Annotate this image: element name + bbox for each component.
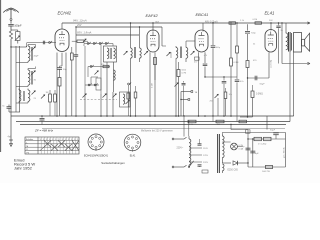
grid capacitor 4700pF xyxy=(247,24,249,30)
speaker field line xyxy=(282,63,310,65)
band switch table xyxy=(25,137,79,154)
mains terminal b xyxy=(174,166,184,168)
wire xyxy=(87,67,89,78)
feed from bus to psu xyxy=(230,125,232,130)
resistor 50k xyxy=(134,92,137,98)
left border edge xyxy=(0,0,2,152)
wire TA pickup xyxy=(181,91,191,93)
wire ECH42 pin1 xyxy=(56,53,58,117)
svg-text:1M: 1M xyxy=(46,92,49,94)
wire xyxy=(83,44,85,47)
IFT3 trimmer right xyxy=(191,51,195,55)
svg-text:M: M xyxy=(27,146,29,148)
tube EAF42 xyxy=(147,30,159,52)
wire TA vertical xyxy=(180,92,182,117)
IFT1 coil a xyxy=(107,48,109,59)
wire cathode EL41 xyxy=(268,53,270,79)
rail A arrow xyxy=(307,22,310,24)
svg-text:30: 30 xyxy=(34,80,37,82)
svg-text:L: L xyxy=(27,142,29,144)
svg-text:700p: 700p xyxy=(251,33,256,35)
svg-text:85V, 1.8mA: 85V, 1.8mA xyxy=(77,31,92,35)
wire OT secondary down xyxy=(289,52,291,122)
wire xyxy=(26,46,28,47)
resistor 0.1M grid leak xyxy=(59,69,61,77)
wire screen ECH42 xyxy=(75,27,77,52)
bus line 1 ground xyxy=(11,115,294,117)
coil L3 MW antenna xyxy=(27,69,29,71)
svg-text:50V: 50V xyxy=(269,20,273,22)
svg-text:0,1M: 0,1M xyxy=(152,83,154,88)
primary tap 125V xyxy=(189,154,202,156)
switch contacts row 2 xyxy=(88,84,90,86)
svg-text:47n: 47n xyxy=(182,84,186,86)
fuse resistor bottom xyxy=(266,165,273,168)
svg-text:Jahr 1952: Jahr 1952 xyxy=(14,166,33,171)
antenna xyxy=(10,8,12,18)
capacitor 50pF xyxy=(57,67,62,69)
coil bank rail 2 xyxy=(19,46,21,112)
svg-text:E250 C85: E250 C85 xyxy=(228,170,239,172)
wire xyxy=(10,26,12,30)
resistor 0.3M agc xyxy=(251,91,254,98)
svg-text:10n: 10n xyxy=(229,94,233,96)
svg-text:(9V): (9V) xyxy=(155,22,159,24)
power switch xyxy=(189,161,194,167)
svg-text:110V: 110V xyxy=(203,148,208,150)
smoothing cap 8uF a xyxy=(247,139,249,167)
wire TA 2 xyxy=(181,99,188,101)
suppressor cap b xyxy=(198,164,202,166)
wire av line xyxy=(213,76,237,78)
svg-text:ZF = 468 kHz: ZF = 468 kHz xyxy=(34,128,54,132)
node junction xyxy=(10,46,11,47)
wire xyxy=(10,20,12,23)
IF transformer 3 xyxy=(175,46,177,48)
transformer core xyxy=(217,134,219,173)
rail B 29V xyxy=(76,26,162,28)
oscillator coil box xyxy=(120,92,131,107)
dial lamp xyxy=(231,143,238,150)
svg-text:Meßwerte bei 220 V gemessen: Meßwerte bei 220 V gemessen xyxy=(141,130,174,133)
svg-text:+2V: +2V xyxy=(204,55,208,57)
wire xyxy=(205,76,213,78)
coil L5 xyxy=(27,89,29,91)
wire antenna down-lead xyxy=(10,44,12,113)
svg-text:ges. 86mA: ges. 86mA xyxy=(282,147,285,158)
svg-text:EAF42: EAF42 xyxy=(146,13,159,18)
wire detector column xyxy=(212,23,214,45)
B+ resistor chain line xyxy=(248,138,286,140)
tube ECH42 xyxy=(55,29,69,52)
svg-text:EL41: EL41 xyxy=(265,11,275,16)
right B+ vertical xyxy=(285,133,287,168)
cathode network wire xyxy=(248,77,270,79)
coil L4 xyxy=(18,89,20,91)
vertical from resistor xyxy=(230,24,232,58)
resistor 0.3M anode xyxy=(229,22,236,24)
capacitor 50nF bus xyxy=(41,116,43,118)
core bars L2 xyxy=(30,47,32,61)
coil L1 antenna coupling variable xyxy=(11,29,18,31)
svg-text:50μF: 50μF xyxy=(270,129,276,131)
tube EL41 xyxy=(265,30,277,52)
oscillator feedback coil xyxy=(114,70,116,80)
psu coupling box xyxy=(246,130,251,133)
svg-text:0.3M: 0.3M xyxy=(234,62,239,64)
capacitor 2nF anode xyxy=(278,23,280,25)
primary tap 110V xyxy=(189,147,202,149)
IFT2 trimmer left xyxy=(124,51,128,55)
svg-text:1kΩ 2W: 1kΩ 2W xyxy=(262,171,271,173)
output transformer secondary xyxy=(291,33,293,51)
lamp wire right xyxy=(237,146,242,148)
capacitor 47n to bus xyxy=(183,81,185,83)
wire osc section xyxy=(106,62,108,116)
svg-text:40pF: 40pF xyxy=(34,56,40,58)
wire xyxy=(90,77,92,84)
IFT2 trimmer right xyxy=(144,51,148,55)
secondary heater winding xyxy=(222,164,224,171)
svg-text:100pF: 100pF xyxy=(14,24,22,28)
transformer primary winding xyxy=(188,136,190,139)
capacitor bus right xyxy=(212,116,214,122)
speaker xyxy=(294,33,302,53)
wire EL41 anode xyxy=(270,23,272,31)
wire anode EAF42 up xyxy=(152,23,154,32)
IF transformer 2 xyxy=(130,46,132,48)
trimmer C-L2 xyxy=(32,47,36,51)
trimmer agc xyxy=(41,95,45,99)
svg-text:4nF: 4nF xyxy=(8,136,13,139)
svg-text:(11.5mA): (11.5mA) xyxy=(269,60,272,68)
svg-text:EL41: EL41 xyxy=(130,154,136,157)
wire IFT3 feed xyxy=(175,27,177,46)
bus 2 resistor b xyxy=(216,120,224,123)
mains terminal a xyxy=(174,138,184,140)
svg-text:48V 0.05mA: 48V 0.05mA xyxy=(205,20,218,23)
capacitor screen bypass xyxy=(74,54,78,56)
wire xyxy=(26,43,28,48)
svg-text:EBC41: EBC41 xyxy=(196,12,209,17)
switch row mid with resistor xyxy=(88,66,110,68)
antenna connector xyxy=(10,18,12,20)
capacitor 50uF cathode xyxy=(254,76,256,81)
tone pot xyxy=(215,94,219,98)
core bars L5 xyxy=(22,91,24,101)
IFT1 coil b xyxy=(109,48,111,59)
B+ top line xyxy=(222,132,285,134)
band switch contacts row xyxy=(84,43,113,45)
wire pin xyxy=(154,52,156,80)
junction dots buses xyxy=(183,115,184,116)
capacitor coupling 10n xyxy=(223,77,225,81)
table diagonal marks xyxy=(44,140,51,147)
wire IFT2 top left xyxy=(130,23,132,46)
coil bank rail xyxy=(15,46,17,112)
capacitor grid coupling xyxy=(42,41,44,45)
valve socket EL41 xyxy=(124,134,141,151)
svg-text:5k: 5k xyxy=(253,44,256,46)
svg-text:Ph: Ph xyxy=(27,153,29,155)
tuning gang C1 xyxy=(83,94,87,98)
IF transformer 1 box xyxy=(104,46,117,62)
svg-text:470: 470 xyxy=(253,60,257,62)
resistor 50k vertical xyxy=(54,94,57,102)
band switch wafer xyxy=(96,78,101,90)
resistor 100k vertical xyxy=(154,58,157,65)
output transformer core xyxy=(288,32,290,52)
resistor on rail A 2 xyxy=(255,22,262,24)
tube EBC41 xyxy=(195,30,208,52)
resistor 1k b xyxy=(264,137,272,140)
volume pot 0.7M xyxy=(177,70,180,77)
wire vertical from rail xyxy=(130,23,132,35)
rectifier to caps wire xyxy=(247,162,249,164)
svg-text:220V: 220V xyxy=(203,162,209,164)
svg-text:TA: TA xyxy=(195,91,198,94)
svg-text:5n: 5n xyxy=(2,106,5,108)
diode load capacitor xyxy=(203,63,208,65)
bus 2 resistor c xyxy=(239,120,247,123)
svg-text:4n7: 4n7 xyxy=(194,62,198,64)
svg-text:500k: 500k xyxy=(182,70,187,72)
svg-text:50μF: 50μF xyxy=(260,84,266,86)
coil L2 LW antenna xyxy=(27,45,29,47)
primary tap 220V xyxy=(189,161,202,163)
trimmer osc padder xyxy=(95,71,99,75)
capacitor 4.7nF xyxy=(195,57,200,60)
trimmer top row xyxy=(83,39,86,42)
switch contact xyxy=(49,42,51,44)
resistor osc xyxy=(127,93,130,99)
resistor screen xyxy=(70,53,73,60)
resistor antenna shunt xyxy=(9,30,12,40)
svg-text:ECH42,EAF42,EBC41: ECH42,EAF42,EBC41 xyxy=(84,155,109,158)
screen feed EL41 xyxy=(281,23,283,64)
secondary winding HT xyxy=(221,134,223,136)
bus line 2 xyxy=(16,121,290,123)
smoothing cap 8uF b xyxy=(252,139,254,167)
svg-text:ECH42: ECH42 xyxy=(58,11,72,16)
svg-text:Schalter: Schalter xyxy=(26,138,34,141)
svg-text:1.1k: 1.1k xyxy=(240,20,245,22)
svg-text:47n: 47n xyxy=(240,81,244,83)
trimmer C-L5 xyxy=(32,91,36,95)
wire ground drop xyxy=(10,112,12,140)
resistor 1k a xyxy=(254,137,262,140)
wire anode ECH42 up xyxy=(61,23,63,29)
gang link dashed xyxy=(80,99,117,101)
svg-text:Sockelschaltungen: Sockelschaltungen xyxy=(101,161,125,165)
capacitor 50uF reservoir xyxy=(273,132,279,134)
core bars L3 xyxy=(30,71,32,85)
svg-text:94V, 12mA: 94V, 12mA xyxy=(73,19,87,23)
svg-text:2n: 2n xyxy=(281,30,283,32)
capacitor 5nF to chassis xyxy=(7,106,12,108)
ground chassis symbol xyxy=(9,139,13,141)
resistor right of ECH42 xyxy=(77,40,84,42)
output transformer primary xyxy=(285,23,287,33)
bus line 4 heater xyxy=(42,127,285,129)
heater drop wires xyxy=(183,116,185,137)
bus line 3 xyxy=(20,124,286,126)
wire bus1 end drop xyxy=(266,116,268,130)
rail A 94V xyxy=(62,22,310,24)
svg-text:2×1.2kΩ: 2×1.2kΩ xyxy=(258,142,267,145)
wire b+ junction xyxy=(240,116,253,118)
wire EBC41 pins xyxy=(198,52,200,116)
capacitor 47nF xyxy=(236,77,238,79)
wire grid ECH42 xyxy=(27,42,56,44)
resistor 0.1M feedback xyxy=(236,23,238,46)
wire ECH42 pin2 xyxy=(61,53,63,66)
switch contact agc xyxy=(128,60,130,81)
primary fuse xyxy=(202,170,208,173)
suppressor cap a xyxy=(198,143,202,145)
tone capacitor xyxy=(224,92,227,99)
svg-text:8μF: 8μF xyxy=(255,153,259,155)
svg-text:220V~: 220V~ xyxy=(177,148,184,150)
svg-text:25: 25 xyxy=(34,98,37,100)
wire to band switch xyxy=(11,46,27,48)
svg-text:0.7M: 0.7M xyxy=(182,72,187,74)
trimmer C-L3 xyxy=(32,71,36,75)
pot wiper arrow xyxy=(175,83,179,87)
rectifier diode E250C85 xyxy=(222,162,231,164)
svg-text:29V: 29V xyxy=(76,24,82,27)
tuning gang C2 xyxy=(103,94,107,98)
svg-text:0.1M: 0.1M xyxy=(253,19,258,21)
svg-text:100p: 100p xyxy=(216,47,221,49)
tuning gang C3 xyxy=(113,94,117,98)
wire EAF42 pins xyxy=(149,52,151,116)
svg-text:125V: 125V xyxy=(203,155,209,157)
wire xyxy=(9,111,20,113)
svg-text:0.3MΩ: 0.3MΩ xyxy=(256,94,263,96)
wire grid EBC41 xyxy=(185,41,187,46)
capacitor 100pF antenna series xyxy=(8,23,14,25)
svg-text:8μ: 8μ xyxy=(242,146,245,148)
wire osc vertical xyxy=(100,45,102,95)
bus 2 resistor a xyxy=(188,120,196,123)
valve socket ECH42/EAF42/EBC41 xyxy=(88,134,104,150)
bottom return line xyxy=(248,166,286,168)
svg-text:50p: 50p xyxy=(63,69,67,71)
wire ECH42 pin3 xyxy=(65,53,67,117)
wire EBC41 anode to rail xyxy=(202,23,204,32)
resistor 1M vertical xyxy=(49,94,52,102)
resistor grid leak EL41 xyxy=(246,61,249,68)
IFT3 trimmer left xyxy=(167,52,171,56)
svg-text:K: K xyxy=(27,149,29,151)
rail C 85V xyxy=(76,34,139,36)
wire vertical 2 xyxy=(139,27,141,46)
